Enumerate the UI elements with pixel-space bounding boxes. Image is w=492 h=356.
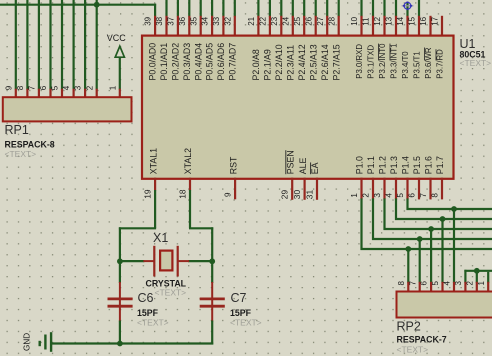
junction dot above RP2 pin 5 <box>440 216 446 222</box>
wire P3.5 vertical from top edge <box>418 0 420 17</box>
svg-text:XTAL2: XTAL2 <box>183 148 193 174</box>
ground symbol bars <box>40 332 51 352</box>
wire P0.3 vertical from top edge <box>188 0 190 17</box>
junction dot above RP2 pin 8 <box>405 246 411 252</box>
svg-text:P2.7/A15: P2.7/A15 <box>331 44 341 80</box>
wire P3.4 vertical below origin marker <box>406 2 408 17</box>
wire XTAL1 pin19 down <box>154 190 156 228</box>
svg-text:3: 3 <box>454 281 463 286</box>
svg-text:P2.2/A10: P2.2/A10 <box>274 44 284 80</box>
wire RP1 pin 3 vertical from top edge <box>84 0 86 90</box>
wire P1.3 vertical drop <box>395 198 397 220</box>
svg-text:33: 33 <box>212 16 221 25</box>
svg-text:11: 11 <box>362 17 371 26</box>
svg-text:5: 5 <box>431 281 440 286</box>
svg-text:P3.2/INT0: P3.2/INT0 <box>378 43 387 79</box>
svg-text:22: 22 <box>259 16 268 25</box>
wire P1.4 vertical drop <box>406 198 408 210</box>
wire branch down to RP2 pin 5 <box>441 219 443 283</box>
svg-text:27: 27 <box>316 16 325 25</box>
wire P0.7 vertical from top edge <box>234 0 236 17</box>
wire node A to crystal left lead <box>120 260 144 262</box>
svg-text:35: 35 <box>189 16 198 25</box>
wire crystal right lead to node B <box>188 260 212 262</box>
wire P2.2 vertical from top edge <box>280 0 282 17</box>
wire P1.4 horizontal to right edge <box>407 208 492 210</box>
svg-text:13: 13 <box>385 16 394 25</box>
svg-text:28: 28 <box>327 16 336 25</box>
svg-text:<TEXT>: <TEXT> <box>460 58 492 68</box>
svg-text:4: 4 <box>62 85 71 90</box>
svg-text:P3.5/T1: P3.5/T1 <box>413 51 422 78</box>
svg-text:P1.6: P1.6 <box>424 156 434 174</box>
wire P3.1 vertical from top edge <box>372 0 374 17</box>
svg-text:3: 3 <box>373 193 382 198</box>
svg-text:1: 1 <box>477 281 486 286</box>
wire XTAL2 jog right <box>189 227 213 229</box>
microcontroller U1 body rectangle (80C51) <box>142 36 454 179</box>
svg-text:RESPACK-7: RESPACK-7 <box>397 335 447 345</box>
wire RP1 pin 6 vertical from top edge <box>49 0 51 90</box>
svg-text:P2.5/A13: P2.5/A13 <box>308 44 318 80</box>
svg-text:10: 10 <box>350 16 359 25</box>
wire P1.1 horizontal to right edge <box>372 238 492 240</box>
svg-text:4: 4 <box>385 193 394 198</box>
svg-text:39: 39 <box>144 16 153 25</box>
svg-text:<TEXT>: <TEXT> <box>230 318 262 328</box>
svg-text:P0.0/AD0: P0.0/AD0 <box>148 43 158 81</box>
crystal X1 left plate <box>153 246 155 277</box>
svg-text:15: 15 <box>408 16 417 25</box>
svg-text:PSEN: PSEN <box>285 150 295 174</box>
svg-text:<TEXT>: <TEXT> <box>137 318 169 328</box>
svg-text:29: 29 <box>280 190 290 200</box>
svg-text:ALE: ALE <box>298 157 308 174</box>
wire XTAL2 pin18 down <box>189 190 191 228</box>
svg-text:P3.3/INT1: P3.3/INT1 <box>390 44 399 79</box>
wire node A down to C6 <box>119 260 121 283</box>
capacitor C6 bottom plate <box>108 305 133 308</box>
svg-text:P0.7/AD7: P0.7/AD7 <box>227 43 237 81</box>
svg-text:9: 9 <box>4 85 13 90</box>
svg-text:23: 23 <box>270 16 279 25</box>
svg-text:4: 4 <box>443 281 452 286</box>
junction dot above RP2 pin 7 <box>417 236 423 242</box>
svg-text:P2.6/A14: P2.6/A14 <box>320 44 330 80</box>
wire pin39 drop from bus <box>154 4 156 17</box>
wire RP1 pin 4 vertical from top edge <box>72 0 74 90</box>
svg-text:P0.5/AD5: P0.5/AD5 <box>205 43 215 81</box>
svg-text:14: 14 <box>396 16 405 25</box>
crystal X1 body <box>160 251 172 271</box>
svg-text:RESPACK-8: RESPACK-8 <box>5 140 55 150</box>
svg-text:34: 34 <box>201 16 210 25</box>
svg-text:2: 2 <box>85 85 94 90</box>
svg-text:16: 16 <box>419 16 428 25</box>
wire branch down to RP2 pin 7 <box>419 239 421 283</box>
wire RP1 pin 7 vertical from top edge <box>38 0 40 90</box>
svg-text:P0.4/AD4: P0.4/AD4 <box>193 43 203 81</box>
svg-text:8: 8 <box>431 193 440 198</box>
wire P1.0 vertical drop <box>360 198 362 250</box>
wire RP1 pin 9 vertical from top edge <box>15 0 17 90</box>
svg-text:7: 7 <box>419 193 428 198</box>
wire P0.2 vertical from top edge <box>177 0 179 17</box>
wire P2.1 vertical from top edge <box>269 0 271 17</box>
svg-text:15PF: 15PF <box>137 308 159 318</box>
svg-text:P2.3/A11: P2.3/A11 <box>285 45 295 81</box>
capacitor C7 lead red <box>211 282 213 322</box>
svg-text:38: 38 <box>155 16 164 25</box>
svg-text:P1.3: P1.3 <box>389 156 399 174</box>
svg-text:RP1: RP1 <box>5 123 29 137</box>
wire C6 to ground rail <box>119 321 121 345</box>
svg-text:18: 18 <box>178 189 188 199</box>
svg-text:8: 8 <box>16 85 25 90</box>
svg-text:6: 6 <box>39 85 48 90</box>
wire XTAL1 down to node A <box>119 227 121 262</box>
U1 top pin stubs red <box>155 16 442 37</box>
junction dot above RP2 pin 6 <box>428 226 434 232</box>
capacitor C6 top plate <box>108 297 133 300</box>
svg-text:26: 26 <box>304 16 313 25</box>
svg-text:8: 8 <box>397 281 406 286</box>
svg-text:<TEXT>: <TEXT> <box>5 149 37 159</box>
svg-text:31: 31 <box>305 190 315 200</box>
svg-text:3: 3 <box>74 85 83 90</box>
svg-text:2: 2 <box>362 193 371 198</box>
crystal X1 right lead red <box>178 260 189 262</box>
wire P1.0 horizontal to right edge <box>361 248 492 250</box>
crystal X1 left lead red <box>143 260 154 262</box>
svg-text:21: 21 <box>247 16 256 25</box>
wire P0.4 vertical from top edge <box>200 0 202 17</box>
svg-text:GND: GND <box>23 333 32 351</box>
svg-text:XTAL1: XTAL1 <box>148 148 158 174</box>
wire P0 bus horizontal top <box>0 4 156 6</box>
wire P2.5 vertical from top edge <box>315 0 317 17</box>
junction dot node A (XTAL1/C6/crystal) <box>117 258 123 264</box>
svg-text:P0.1/AD1: P0.1/AD1 <box>159 43 169 81</box>
wire RP2 pin3 riser <box>464 270 466 283</box>
capacitor C6 lead red <box>119 282 121 322</box>
svg-text:RP2: RP2 <box>397 320 421 334</box>
svg-text:12: 12 <box>373 16 382 25</box>
resistor pack RP1 body <box>3 97 132 121</box>
capacitor C7 bottom plate <box>200 305 225 308</box>
wire RP2 pin3 horizontal to right edge <box>464 270 492 272</box>
svg-text:2: 2 <box>465 281 474 286</box>
svg-text:RST: RST <box>228 156 238 174</box>
svg-text:7: 7 <box>28 85 37 90</box>
svg-text:P2.0/A8: P2.0/A8 <box>251 49 261 80</box>
svg-text:P1.7: P1.7 <box>435 156 445 174</box>
wire P2.4 vertical from top edge <box>303 0 305 17</box>
svg-text:24: 24 <box>281 16 290 25</box>
crystal X1 right plate <box>177 246 179 277</box>
wire branch down to RP2 pin 2 <box>476 271 478 283</box>
wire RP1 pin 2 vertical from top edge <box>96 0 98 90</box>
svg-text:EA: EA <box>310 162 320 174</box>
wire branch down to RP2 pin 8 <box>407 249 409 283</box>
svg-text:P0.6/AD6: P0.6/AD6 <box>216 43 226 81</box>
svg-text:5: 5 <box>396 193 405 198</box>
junction dot RP1 pin2 on P0 bus <box>94 2 100 8</box>
svg-text:P1.5: P1.5 <box>412 156 422 174</box>
svg-text:P3.7/RD: P3.7/RD <box>436 49 445 79</box>
wire down to RP2 pin 1 <box>487 272 489 283</box>
capacitor C7 top plate <box>200 297 225 300</box>
svg-text:P3.6/WR: P3.6/WR <box>424 47 433 79</box>
wire P0.5 vertical from top edge <box>211 0 213 17</box>
wire C7 to ground rail <box>211 321 213 345</box>
junction dot above RP2 pin 2 <box>474 268 480 274</box>
svg-text:P0.2/AD2: P0.2/AD2 <box>171 43 181 81</box>
wire branch down to RP2 pin 4 <box>453 209 455 283</box>
power VCC arrow symbol <box>115 46 124 57</box>
svg-text:6: 6 <box>408 193 417 198</box>
RP2 pin stubs red <box>408 282 488 292</box>
svg-text:1: 1 <box>108 85 117 90</box>
svg-text:<TEXT>: <TEXT> <box>155 288 187 298</box>
svg-text:7: 7 <box>408 281 417 286</box>
wire RP1 pin 8 vertical from top edge <box>26 0 28 90</box>
origin marker crosshair on P3.4 net <box>402 2 414 11</box>
svg-text:30: 30 <box>292 190 302 200</box>
svg-text:P3.4/T0: P3.4/T0 <box>401 51 410 79</box>
wire P1.2 horizontal to right edge <box>384 228 492 230</box>
wire P3.0 vertical from top edge <box>360 0 362 17</box>
U1 bottom pin stubs red <box>155 178 442 200</box>
wire P0.6 vertical from top edge <box>222 0 224 17</box>
wire branch down to RP2 pin 6 <box>430 229 432 283</box>
svg-text:X1: X1 <box>153 231 168 245</box>
svg-text:P1.2: P1.2 <box>378 156 388 174</box>
junction dot C6 on ground rail <box>117 341 123 347</box>
svg-text:C6: C6 <box>138 291 154 305</box>
svg-text:36: 36 <box>178 16 187 25</box>
wire P0.1 vertical from top edge <box>165 0 167 17</box>
wire P2.0 vertical from top edge <box>257 0 259 17</box>
svg-text:P1.4: P1.4 <box>401 156 411 174</box>
svg-text:5: 5 <box>51 85 60 90</box>
ground rail wire <box>51 342 213 344</box>
svg-text:P3.1/TXD: P3.1/TXD <box>367 45 376 79</box>
wire P1.2 vertical drop <box>383 198 385 230</box>
resistor pack RP2 body <box>397 292 492 318</box>
wire VCC stem to RP1 pin1 <box>119 57 121 89</box>
svg-text:<TEXT>: <TEXT> <box>397 345 429 355</box>
wire RP1 pin 5 vertical from top edge <box>61 0 63 90</box>
junction dot above RP2 pin 4 <box>451 206 457 212</box>
wire XTAL1 jog left <box>119 227 156 229</box>
svg-text:P2.4/A12: P2.4/A12 <box>297 44 307 80</box>
junction dot node B (XTAL2/C7/crystal) <box>209 258 215 264</box>
svg-text:19: 19 <box>143 189 153 199</box>
svg-text:25: 25 <box>293 16 302 25</box>
svg-text:P0.3/AD3: P0.3/AD3 <box>182 43 192 81</box>
wire P2.3 vertical from top edge <box>292 0 294 17</box>
wire node B down to C7 <box>211 260 213 283</box>
svg-text:P1.0: P1.0 <box>355 156 365 174</box>
wire P1.3 horizontal to right edge <box>395 218 492 220</box>
RP1 pin stubs red <box>16 89 120 98</box>
wire P1.1 vertical drop <box>372 198 374 240</box>
svg-text:37: 37 <box>167 16 176 25</box>
svg-text:15PF: 15PF <box>230 308 252 318</box>
wire P2.6 vertical from top edge <box>326 0 328 17</box>
svg-text:32: 32 <box>223 16 232 25</box>
wire XTAL2 down to node B <box>211 227 213 262</box>
svg-text:P3.0/RXD: P3.0/RXD <box>355 44 364 79</box>
svg-text:17: 17 <box>431 16 440 25</box>
wire P3.3 vertical from top edge <box>395 0 397 17</box>
svg-text:9: 9 <box>224 192 233 197</box>
wire P2.7 vertical from top edge <box>338 0 340 17</box>
svg-text:VCC: VCC <box>107 33 127 43</box>
svg-text:6: 6 <box>420 281 429 286</box>
svg-text:C7: C7 <box>231 291 247 305</box>
wire P3.2 vertical from top edge <box>383 0 385 17</box>
svg-text:P2.1/A9: P2.1/A9 <box>263 49 273 80</box>
svg-text:P1.1: P1.1 <box>366 156 376 174</box>
svg-text:1: 1 <box>350 193 359 198</box>
